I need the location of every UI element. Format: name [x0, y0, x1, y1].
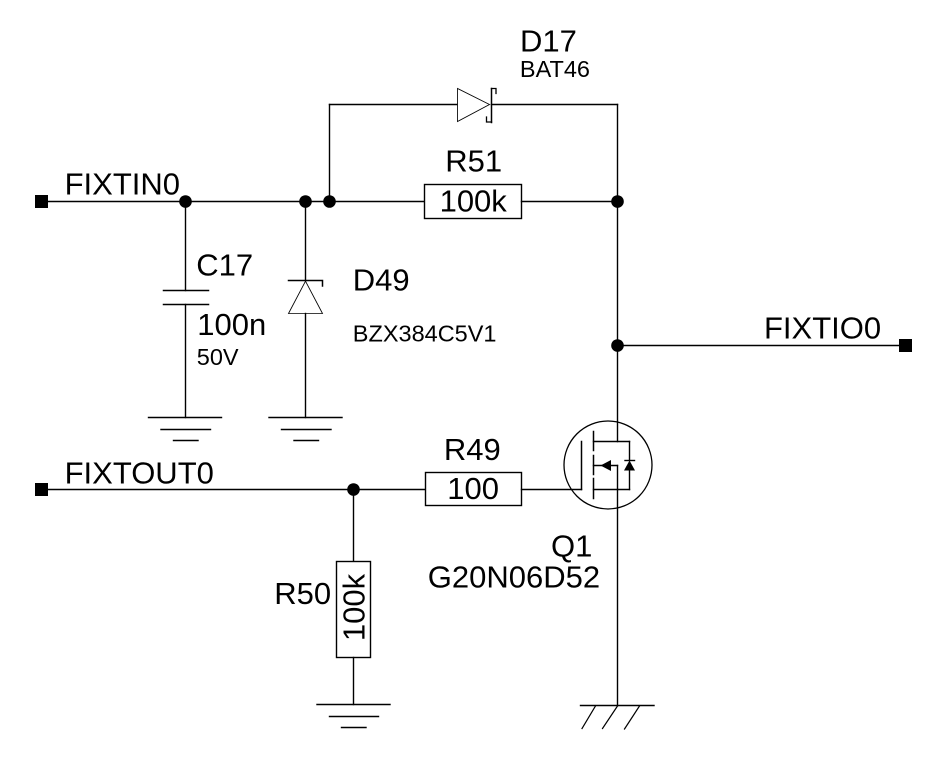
terminal FIXTIO0 [899, 339, 912, 352]
transistor Q1 [564, 421, 652, 509]
node FIXTIO0 junction [611, 339, 624, 352]
wire net FIXTIO0 [618, 345, 900, 347]
svg-text:100: 100 [447, 471, 499, 506]
wire C17 top lead [185, 202, 187, 291]
capacitor C17 [164, 291, 209, 305]
wire R50 top lead [353, 490, 355, 562]
terminal FIXTIN0 [35, 195, 48, 208]
wire R50 bottom lead [353, 658, 355, 705]
wire main vertical to Q1 drain [617, 202, 619, 442]
wire D49 cathode lead [305, 202, 307, 281]
node FIXTIN0/C17 junction [179, 195, 192, 208]
wire net FIXTOUT0 [48, 489, 426, 491]
ground under C17 [149, 418, 222, 441]
wire R51 right [522, 201, 618, 203]
svg-text:FIXTIN0: FIXTIN0 [65, 167, 180, 202]
svg-text:D49: D49 [353, 263, 410, 298]
resistor R50 [337, 562, 371, 658]
svg-text:FIXTIO0: FIXTIO0 [764, 311, 881, 346]
zener diode D49 [289, 281, 323, 314]
wire R49 to gate [522, 489, 582, 491]
wire D17 loop right vertical [617, 105, 619, 202]
terminal FIXTOUT0 [35, 483, 48, 496]
wire net FIXTIN0 horizontal [48, 201, 425, 203]
svg-text:G20N06D52: G20N06D52 [428, 560, 600, 595]
ground under R50 [317, 705, 390, 728]
svg-text:100k: 100k [337, 573, 372, 641]
wire Q1 source lead [617, 490, 619, 706]
svg-text:Q1: Q1 [551, 529, 592, 564]
svg-text:R50: R50 [274, 576, 331, 611]
diode D17 [458, 89, 497, 123]
svg-text:BAT46: BAT46 [520, 56, 590, 82]
ground under D49 [269, 418, 342, 441]
resistor R49 [426, 473, 522, 506]
node FIXTOUT0/R50 junction [347, 483, 360, 496]
svg-text:FIXTOUT0: FIXTOUT0 [65, 455, 214, 490]
node FIXTIN0/D49 junction [299, 195, 312, 208]
wire D17 loop left vertical [329, 105, 331, 202]
wire D17 cathode horizontal [492, 104, 618, 106]
svg-text:50V: 50V [197, 344, 239, 370]
wire D17 anode horizontal [330, 104, 458, 106]
node FIXTIN0/D17 junction [323, 195, 336, 208]
svg-text:BZX384C5V1: BZX384C5V1 [353, 321, 497, 347]
wire C17 bottom lead [185, 305, 187, 418]
svg-text:100k: 100k [440, 184, 508, 219]
chassis ground under Q1 [581, 706, 655, 730]
svg-text:C17: C17 [196, 248, 253, 283]
node R51/D17 junction [611, 195, 624, 208]
svg-text:R49: R49 [444, 432, 501, 467]
resistor R51 [425, 185, 522, 219]
svg-text:R51: R51 [445, 143, 502, 178]
wire D49 anode lead [305, 314, 307, 418]
svg-text:100n: 100n [197, 307, 266, 342]
svg-text:D17: D17 [520, 24, 577, 59]
